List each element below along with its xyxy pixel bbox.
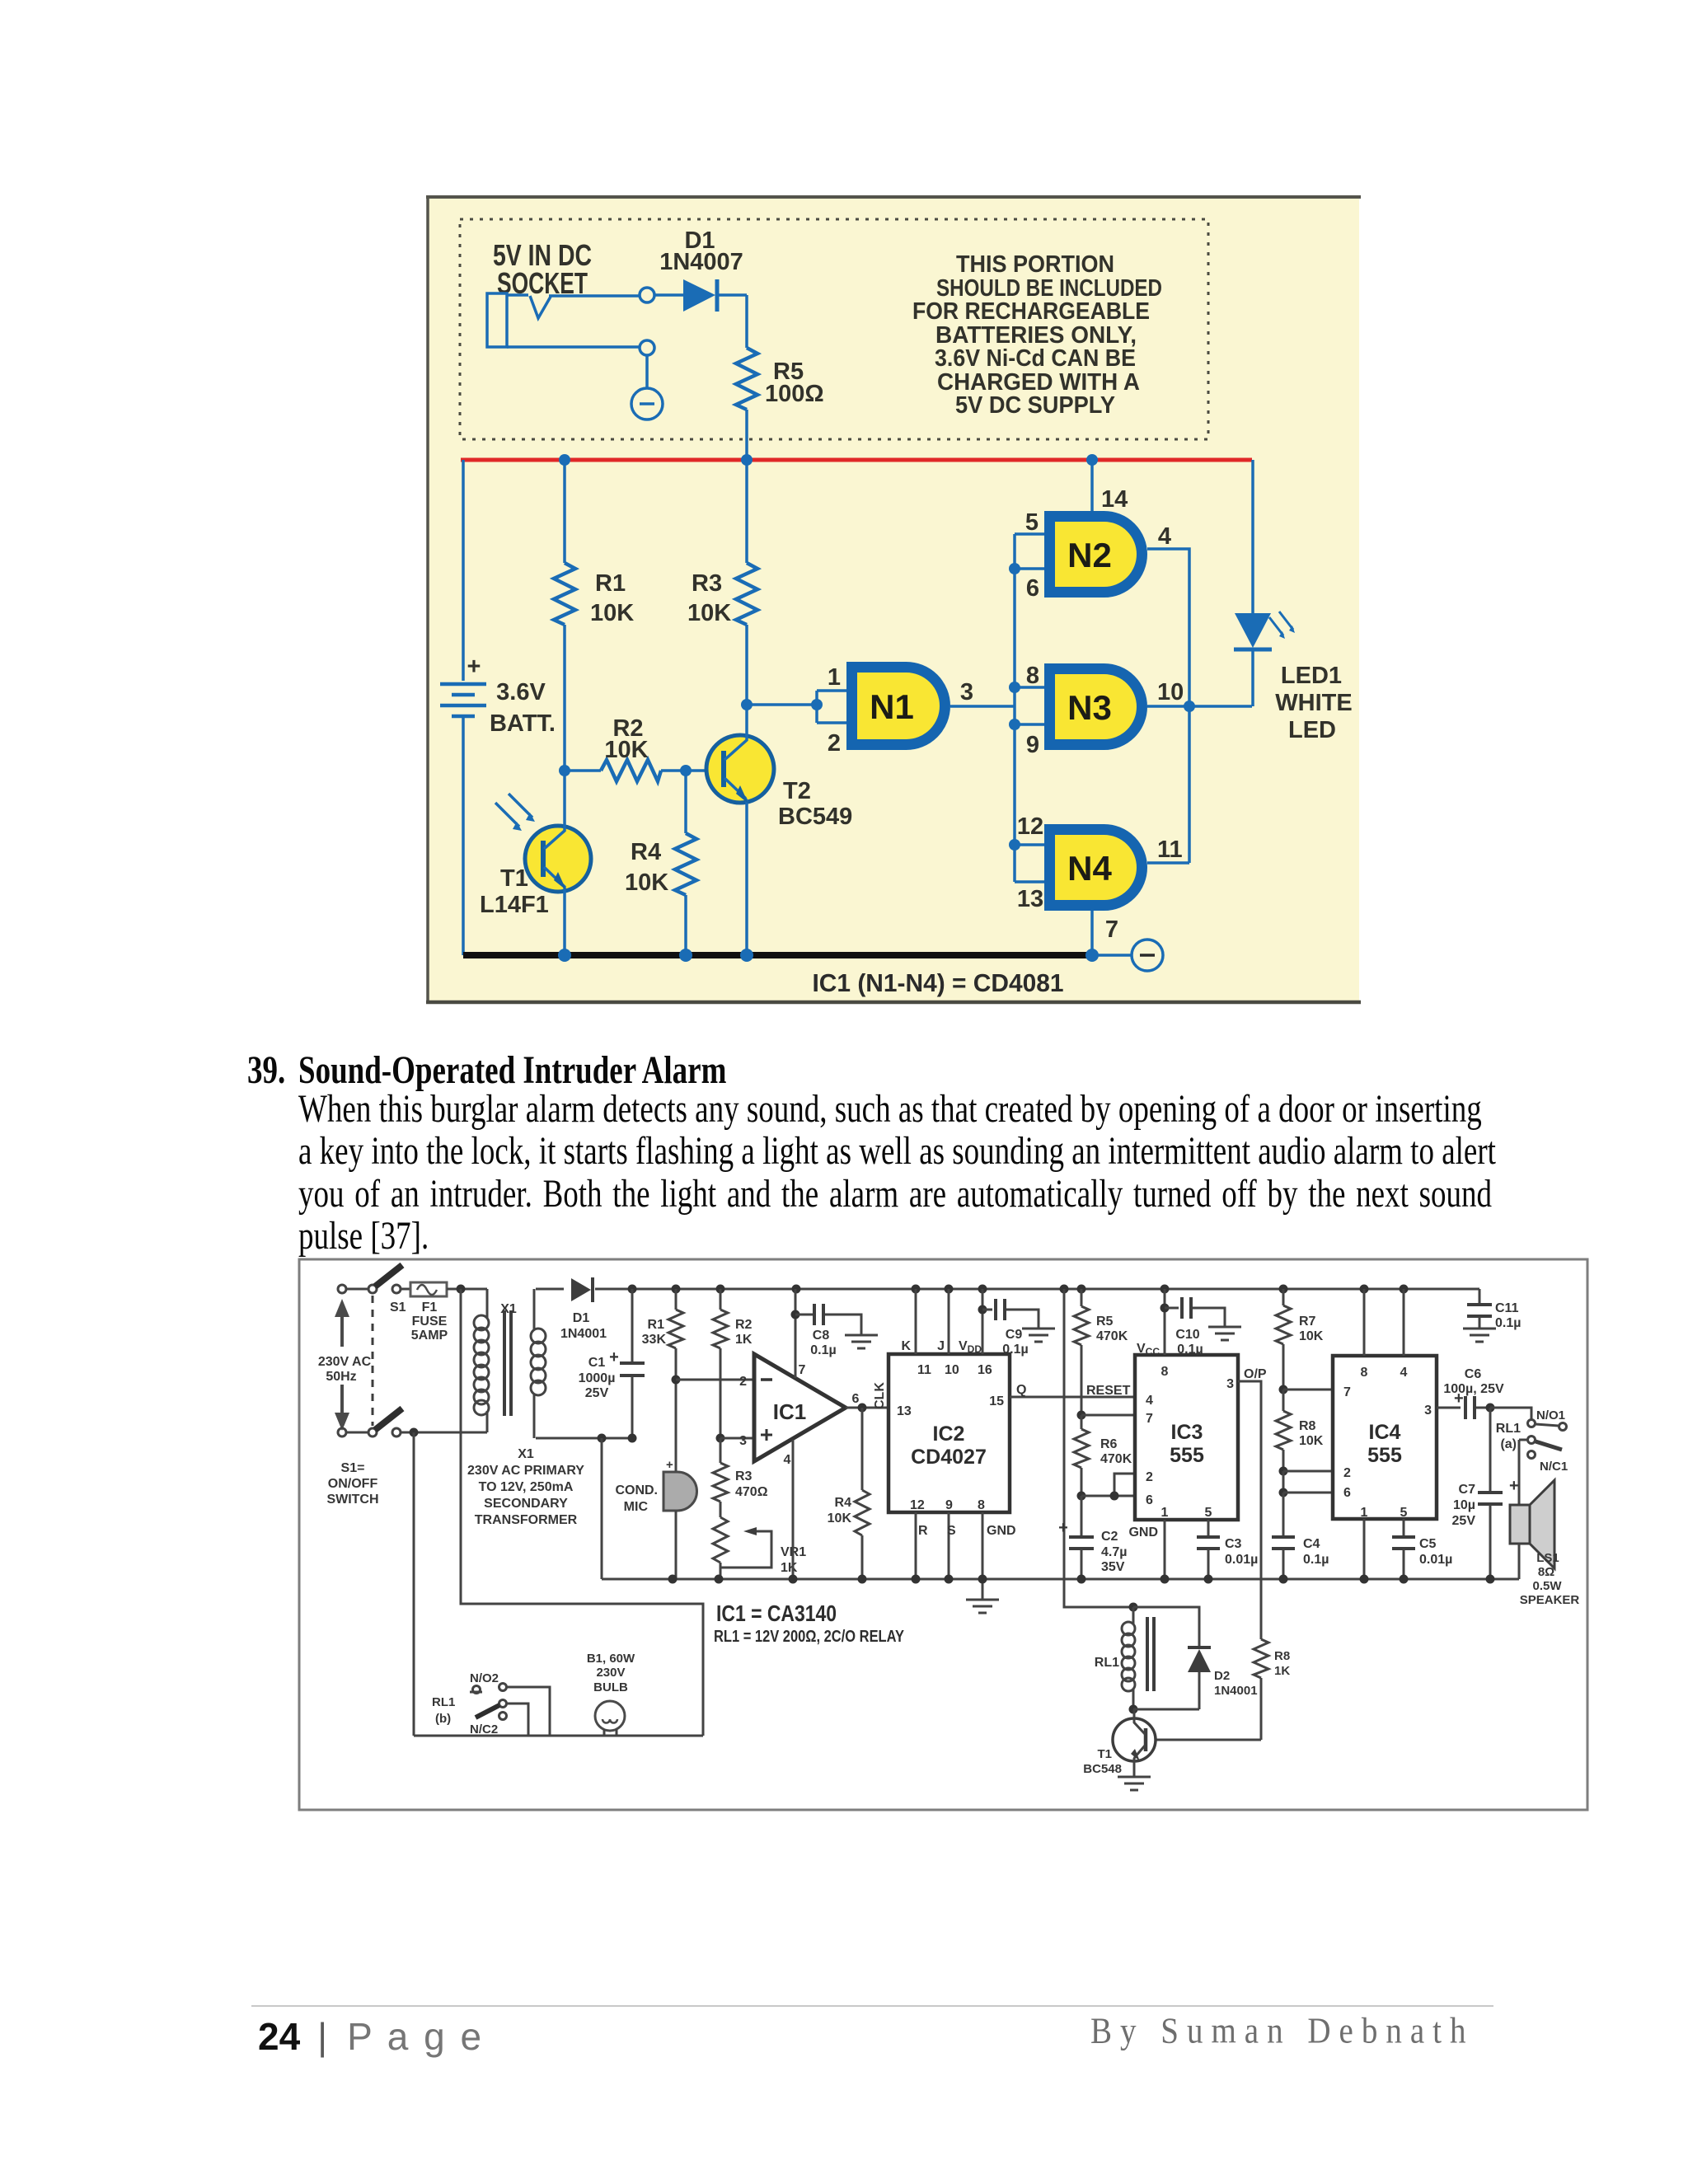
svg-text:FUSE: FUSE	[412, 1315, 448, 1329]
capacitor C11 0.1u	[1467, 1289, 1521, 1330]
svg-text:BATT.: BATT.	[490, 710, 556, 737]
svg-text:SPEAKER: SPEAKER	[1520, 1593, 1580, 1607]
preset VR1 1K	[713, 1517, 806, 1579]
svg-text:C1: C1	[588, 1356, 606, 1370]
resistor R4 10K	[828, 1408, 870, 1579]
diode D2 1N4001	[1133, 1607, 1258, 1709]
svg-text:R1: R1	[595, 570, 626, 597]
svg-text:T2: T2	[783, 778, 811, 804]
pin 8 label	[1026, 663, 1039, 689]
svg-text:1K: 1K	[781, 1561, 798, 1575]
wire R5 to rail	[745, 410, 748, 460]
wire R1 to R2 node	[563, 625, 566, 771]
svg-text:1000µ: 1000µ	[579, 1371, 616, 1385]
node R6/C2/pin6	[1077, 1492, 1086, 1501]
wire to IC4 pin7	[1283, 1389, 1333, 1391]
input bus vertical	[1013, 534, 1016, 882]
svg-text:D1: D1	[573, 1311, 590, 1325]
node rail/R4	[679, 949, 692, 962]
svg-text:13: 13	[1017, 886, 1043, 912]
wire IC1 out to IC2 clk	[846, 1407, 889, 1409]
label X1 transformer	[467, 1447, 584, 1527]
wire N4 output	[1147, 861, 1189, 865]
svg-text:GND: GND	[987, 1524, 1016, 1538]
node C10 tee	[1160, 1304, 1170, 1313]
node bus pin8	[1009, 682, 1020, 693]
node R2/R4 junction	[680, 765, 692, 776]
svg-text:7: 7	[1105, 916, 1118, 943]
capacitor C1 1000u	[579, 1289, 645, 1438]
svg-text:3: 3	[960, 679, 973, 705]
svg-text:B1, 60W: B1, 60W	[587, 1652, 635, 1666]
IC2 bottom pin wires R S GND	[910, 1498, 1016, 1579]
minus terminal	[631, 388, 663, 419]
svg-text:14: 14	[1101, 486, 1128, 513]
svg-text:RL1: RL1	[1095, 1656, 1119, 1670]
bulb B1	[587, 1652, 635, 1736]
node R5/R6/pin7	[1077, 1411, 1086, 1420]
svg-text:470K: 470K	[1100, 1452, 1132, 1466]
svg-text:6: 6	[1146, 1493, 1153, 1507]
svg-text:9: 9	[1026, 732, 1039, 758]
svg-text:10µ: 10µ	[1453, 1498, 1475, 1512]
wire pole to bulb loop	[506, 1704, 528, 1736]
svg-text:O/P: O/P	[1244, 1367, 1267, 1381]
svg-text:T1: T1	[1097, 1747, 1112, 1761]
section heading title	[298, 1047, 726, 1094]
node bus pin12	[1009, 839, 1020, 851]
ground at C9	[1022, 1329, 1055, 1342]
svg-text:0.1µ: 0.1µ	[1177, 1343, 1203, 1357]
label D1 1N4007	[659, 227, 743, 275]
svg-text:IC4: IC4	[1369, 1421, 1401, 1444]
ground at C11	[1463, 1329, 1496, 1342]
wire pin13 stub	[1015, 880, 1044, 883]
resistor R6 470K	[1074, 1415, 1132, 1496]
svg-text:5: 5	[1400, 1506, 1408, 1520]
svg-text:LED1: LED1	[1281, 663, 1342, 689]
svg-text:555: 555	[1367, 1444, 1402, 1467]
0V secondary rail	[536, 1434, 637, 1580]
IC3 pin8 Vcc	[1137, 1289, 1169, 1379]
svg-text:IC2: IC2	[933, 1422, 965, 1446]
node rail/T1	[558, 949, 571, 962]
svg-text:SECONDARY: SECONDARY	[484, 1497, 568, 1511]
svg-text:16: 16	[978, 1363, 992, 1377]
pin 7 label	[1105, 916, 1118, 943]
svg-text:R: R	[918, 1524, 928, 1538]
svg-text:10K: 10K	[590, 600, 634, 626]
svg-text:C6: C6	[1465, 1367, 1482, 1381]
svg-text:10K: 10K	[625, 869, 668, 896]
svg-text:3: 3	[1424, 1404, 1432, 1418]
svg-text:50Hz: 50Hz	[326, 1370, 356, 1384]
wire N3 output	[1147, 705, 1252, 708]
IC3 pin labels 4 7 2 6	[1146, 1394, 1153, 1507]
pin 4 label	[1158, 523, 1171, 550]
svg-text:RL1 = 12V 200Ω, 2C/O RELAY: RL1 = 12V 200Ω, 2C/O RELAY	[714, 1628, 905, 1646]
svg-text:1N4001: 1N4001	[560, 1327, 607, 1341]
terminal node (tip)	[640, 288, 654, 302]
capacitor C2 4.7u	[1058, 1496, 1127, 1579]
ground rail (black)	[463, 952, 1092, 958]
svg-text:1: 1	[1361, 1506, 1368, 1520]
svg-text:25V: 25V	[1452, 1514, 1476, 1528]
condenser mic	[615, 1458, 696, 1579]
svg-text:R2: R2	[735, 1318, 753, 1332]
wire fuse to primary	[447, 1288, 487, 1291]
svg-text:IC3: IC3	[1171, 1421, 1203, 1444]
node pin6 tee	[1279, 1471, 1334, 1497]
svg-text:GND: GND	[1128, 1526, 1158, 1540]
resistor R1 33K	[642, 1289, 683, 1471]
node pin2 tee	[1279, 1467, 1334, 1476]
svg-text:230V AC PRIMARY: 230V AC PRIMARY	[467, 1464, 584, 1478]
svg-text:CLK: CLK	[873, 1382, 887, 1409]
svg-text:BC548: BC548	[1083, 1762, 1122, 1776]
svg-text:TO 12V, 250mA: TO 12V, 250mA	[479, 1480, 574, 1494]
svg-text:IC1: IC1	[773, 1399, 806, 1424]
bulb bottom wire	[414, 1735, 703, 1737]
footer page number	[258, 2014, 484, 2059]
pin 11 label	[1157, 837, 1183, 863]
svg-text:10: 10	[1157, 679, 1184, 705]
gate N1	[852, 668, 945, 745]
svg-text:TRANSFORMER: TRANSFORMER	[475, 1513, 578, 1527]
pin 5 label	[1025, 509, 1039, 536]
svg-text:13: 13	[897, 1404, 912, 1418]
rail nodes	[628, 1285, 1409, 1294]
wire pin14 supply	[1090, 460, 1094, 511]
svg-text:C8: C8	[813, 1329, 830, 1343]
svg-text:IC1 (N1-N4) = CD4081: IC1 (N1-N4) = CD4081	[813, 968, 1064, 997]
svg-text:15: 15	[989, 1394, 1004, 1408]
resistor R2 1K	[713, 1289, 753, 1438]
svg-text:R5: R5	[1096, 1315, 1114, 1329]
ground at C8	[845, 1335, 878, 1348]
paragraph body	[298, 1086, 1482, 1132]
node rail/T2	[740, 949, 753, 962]
svg-text:X1: X1	[518, 1447, 534, 1461]
relay coil RL1	[1095, 1607, 1154, 1709]
230V AC source arrows	[318, 1299, 372, 1431]
transistor T1 BC548	[1083, 1709, 1156, 1777]
resistor R1 10K	[554, 563, 634, 626]
svg-text:SWITCH: SWITCH	[326, 1493, 378, 1507]
ground at T1 emitter	[1118, 1777, 1151, 1790]
resistor R8 10K	[1276, 1390, 1324, 1471]
svg-text:J: J	[937, 1339, 945, 1353]
wire pin9 stub	[1015, 723, 1044, 726]
svg-text:1: 1	[1161, 1506, 1169, 1520]
svg-text:11: 11	[1157, 837, 1183, 863]
svg-text:0.1µ: 0.1µ	[1495, 1316, 1521, 1330]
svg-text:FOR RECHARGEABLE: FOR RECHARGEABLE	[912, 298, 1150, 325]
svg-text:CD4027: CD4027	[911, 1446, 987, 1469]
resistor R7 10K	[1276, 1289, 1324, 1390]
capacitor C7 10u	[1452, 1408, 1519, 1579]
svg-text:9: 9	[945, 1498, 953, 1512]
pin 12 label	[1017, 813, 1043, 840]
wire R3 to collector node	[745, 625, 748, 705]
svg-text:12: 12	[1017, 813, 1043, 840]
speaker LS1	[1510, 1440, 1579, 1607]
svg-text:R7: R7	[1299, 1315, 1316, 1329]
svg-text:L14F1: L14F1	[480, 892, 549, 918]
svg-text:C5: C5	[1419, 1537, 1437, 1551]
svg-text:K: K	[901, 1339, 911, 1353]
footer rule	[251, 2005, 1493, 2007]
label RL1 relay spec	[714, 1628, 905, 1646]
svg-text:3.6V: 3.6V	[496, 679, 546, 705]
label IC1 = CD4081	[813, 968, 1064, 997]
pin 10 label	[1157, 679, 1184, 705]
svg-text:Q: Q	[1016, 1383, 1026, 1397]
pin 6 label	[852, 1392, 860, 1406]
wire pin6 stub	[1015, 567, 1044, 570]
battery BATT1 3.6V	[440, 654, 556, 737]
svg-text:N/O2: N/O2	[470, 1671, 499, 1685]
capacitor C4 0.1u	[1272, 1493, 1329, 1579]
svg-text:BULB: BULB	[593, 1680, 628, 1694]
node R1/mic/pin2	[672, 1376, 681, 1385]
svg-text:4: 4	[1146, 1394, 1153, 1408]
resistor R3 10K	[687, 563, 757, 626]
svg-text:N1: N1	[870, 687, 914, 726]
svg-text:0.1µ: 0.1µ	[810, 1343, 836, 1357]
wire socket sleeve	[507, 345, 640, 349]
svg-text:4: 4	[1400, 1366, 1408, 1380]
svg-text:+: +	[1509, 1477, 1519, 1495]
svg-text:R1: R1	[648, 1318, 665, 1332]
ground under IC2	[966, 1579, 999, 1613]
svg-text:8: 8	[1161, 1365, 1169, 1379]
wire to minus terminal	[1092, 954, 1132, 957]
svg-text:N3: N3	[1067, 688, 1112, 727]
IC2 top pin wires K J VDD	[901, 1289, 992, 1377]
schematic 2 frame	[299, 1259, 1587, 1810]
svg-text:100µ, 25V: 100µ, 25V	[1443, 1382, 1504, 1396]
svg-text:6: 6	[1343, 1486, 1351, 1500]
IC3 pin5 and C3	[1197, 1506, 1258, 1579]
node fused live	[457, 1285, 466, 1294]
svg-text:470Ω: 470Ω	[735, 1485, 768, 1499]
svg-text:8: 8	[1361, 1366, 1368, 1380]
node relay top	[1129, 1603, 1138, 1612]
ground at C10	[1208, 1327, 1241, 1340]
svg-text:3: 3	[739, 1434, 747, 1448]
resistor R4 10K	[625, 771, 696, 955]
svg-text:F1: F1	[422, 1301, 438, 1315]
svg-text:0.5W: 0.5W	[1532, 1579, 1562, 1593]
positive supply rail (red)	[461, 458, 1252, 462]
svg-text:MIC: MIC	[624, 1500, 649, 1514]
pin 2 label	[828, 730, 841, 757]
svg-text:BC549: BC549	[778, 804, 852, 830]
note text block	[912, 251, 1162, 419]
node collector T2	[741, 699, 753, 710]
wire IC1 pin7 to rail	[795, 1289, 797, 1378]
IC4 555	[1333, 1356, 1437, 1519]
label S1 ON/OFF SWITCH	[326, 1461, 378, 1507]
resistor R5	[736, 348, 824, 410]
wire sleeve to minus terminal	[645, 355, 649, 388]
svg-text:R3: R3	[735, 1469, 753, 1483]
svg-text:0.1µ: 0.1µ	[1002, 1343, 1028, 1357]
svg-text:0.1µ: 0.1µ	[1303, 1553, 1329, 1567]
neutral drop	[413, 1432, 415, 1736]
node rail/R5	[741, 454, 753, 466]
svg-text:N/O1: N/O1	[1536, 1408, 1565, 1422]
svg-text:+: +	[1058, 1519, 1068, 1537]
node outputs join	[1184, 701, 1195, 712]
svg-text:3: 3	[1226, 1377, 1234, 1391]
svg-text:+: +	[666, 1458, 673, 1472]
pin 1 label	[828, 664, 841, 691]
gate N4	[1050, 830, 1142, 906]
wire D1 to R5	[745, 295, 748, 348]
node N1 input tee	[811, 699, 823, 710]
svg-text:N4: N4	[1067, 849, 1112, 888]
svg-text:+: +	[467, 654, 481, 680]
pin 13 label	[1017, 886, 1043, 912]
node rail/pin14	[1086, 454, 1098, 466]
svg-text:10K: 10K	[828, 1511, 852, 1526]
svg-text:10K: 10K	[1299, 1434, 1324, 1448]
svg-text:4.7µ: 4.7µ	[1101, 1545, 1127, 1559]
dashed charger box	[460, 219, 1208, 439]
svg-text:C11: C11	[1495, 1301, 1519, 1315]
svg-text:C7: C7	[1459, 1483, 1476, 1497]
svg-text:R3: R3	[692, 570, 722, 597]
resistor R5 470K	[1074, 1289, 1128, 1415]
svg-text:RESET: RESET	[1086, 1384, 1131, 1398]
svg-text:1K: 1K	[1274, 1664, 1290, 1678]
bottom rail nodes	[668, 1575, 1495, 1584]
wire pin8 stub	[1015, 686, 1044, 689]
schematic 1 panel background	[426, 197, 1361, 1002]
label IC1 = CA3140	[716, 1601, 837, 1626]
wire T2 collector to N1 inputs	[747, 703, 817, 706]
svg-text:5AMP: 5AMP	[411, 1329, 448, 1343]
svg-text:7: 7	[799, 1363, 806, 1377]
mains live drop	[461, 1289, 703, 1736]
IC3 555	[1135, 1355, 1238, 1520]
svg-text:C3: C3	[1225, 1537, 1242, 1551]
svg-text:3.6V Ni-Cd CAN BE: 3.6V Ni-Cd CAN BE	[935, 345, 1136, 372]
svg-text:555: 555	[1170, 1444, 1204, 1467]
svg-text:(a): (a)	[1500, 1437, 1517, 1451]
wire N2 output	[1147, 549, 1189, 706]
node bus pin9	[1009, 719, 1020, 730]
supply branch to relay	[1064, 1289, 1133, 1607]
svg-text:LS1: LS1	[1536, 1551, 1559, 1565]
svg-text:10: 10	[945, 1363, 959, 1377]
svg-text:5: 5	[1025, 509, 1039, 536]
LED1	[1234, 460, 1295, 706]
node R7/R8/pin7	[1279, 1385, 1288, 1394]
relay contact RL1(b)	[432, 1671, 507, 1736]
svg-text:S1: S1	[390, 1301, 406, 1315]
wire left branch top	[462, 460, 465, 681]
label 5V IN DC SOCKET	[493, 238, 592, 300]
wire pin7 ground	[1090, 911, 1094, 955]
0V bottom rail	[602, 1578, 1519, 1581]
svg-text:T1: T1	[500, 865, 528, 892]
svg-text:8: 8	[978, 1498, 985, 1512]
fuse F1	[410, 1282, 448, 1343]
wire pin12 stub	[1015, 843, 1044, 846]
svg-text:6: 6	[852, 1392, 860, 1406]
node relay bottom	[1129, 1705, 1138, 1714]
svg-text:R6: R6	[1100, 1437, 1118, 1451]
svg-text:LED: LED	[1288, 717, 1336, 743]
svg-text:R4: R4	[835, 1496, 852, 1510]
svg-text:N2: N2	[1067, 536, 1112, 574]
node C8 tee	[791, 1310, 800, 1319]
relay contact RL1(a)	[1490, 1408, 1568, 1474]
svg-text:33K: 33K	[642, 1333, 667, 1347]
pin 9 label	[1026, 732, 1039, 758]
svg-text:6: 6	[1026, 575, 1039, 602]
svg-text:10K: 10K	[687, 600, 731, 626]
svg-text:12: 12	[910, 1498, 925, 1512]
resistor R8 1K	[1156, 1639, 1290, 1740]
section heading number	[247, 1047, 285, 1094]
svg-text:35V: 35V	[1101, 1560, 1125, 1574]
pin 3 label	[739, 1434, 747, 1448]
IC3 pin1	[1128, 1506, 1168, 1579]
wire socket tip to D1	[549, 294, 640, 298]
label LED1 WHITE LED	[1275, 663, 1352, 743]
IC3 pin3 output	[1226, 1367, 1267, 1639]
svg-text:C10: C10	[1175, 1328, 1199, 1342]
pin 3 label	[960, 679, 973, 705]
svg-text:4: 4	[784, 1453, 791, 1467]
svg-text:11: 11	[917, 1363, 931, 1377]
svg-text:4: 4	[1158, 523, 1171, 550]
svg-text:C9: C9	[1006, 1328, 1023, 1342]
diode D1 (1N4001)	[536, 1277, 607, 1341]
svg-text:RL1: RL1	[1496, 1422, 1521, 1436]
svg-text:C2: C2	[1101, 1530, 1118, 1544]
svg-text:1K: 1K	[735, 1333, 753, 1347]
pin 6 label	[1026, 575, 1039, 602]
footer author	[1090, 2009, 1474, 2052]
wire rail to R3	[745, 460, 748, 563]
label CLK	[873, 1382, 887, 1409]
svg-text:COND.: COND.	[615, 1483, 658, 1497]
svg-text:R8: R8	[1274, 1649, 1290, 1663]
svg-text:5: 5	[1205, 1506, 1212, 1520]
IC4 pin1 wire	[1363, 1519, 1366, 1579]
transistor T2 BC549	[706, 705, 852, 955]
op-amp IC1 CA3140	[754, 1354, 846, 1461]
svg-text:2: 2	[828, 730, 841, 757]
svg-text:RL1: RL1	[432, 1695, 455, 1709]
pin 2 label	[739, 1375, 747, 1389]
node R2/R3/pin3	[716, 1434, 725, 1443]
wire N1 out to bus	[950, 705, 1015, 708]
svg-text:ON/OFF: ON/OFF	[328, 1477, 378, 1491]
svg-text:S: S	[947, 1524, 956, 1538]
pin 7 label	[799, 1363, 806, 1377]
wire IC1 pin4 down	[792, 1440, 795, 1579]
svg-text:X1: X1	[500, 1302, 517, 1316]
pin 4 label	[784, 1453, 791, 1467]
svg-text:D2: D2	[1214, 1669, 1230, 1683]
svg-text:2: 2	[1343, 1466, 1351, 1480]
